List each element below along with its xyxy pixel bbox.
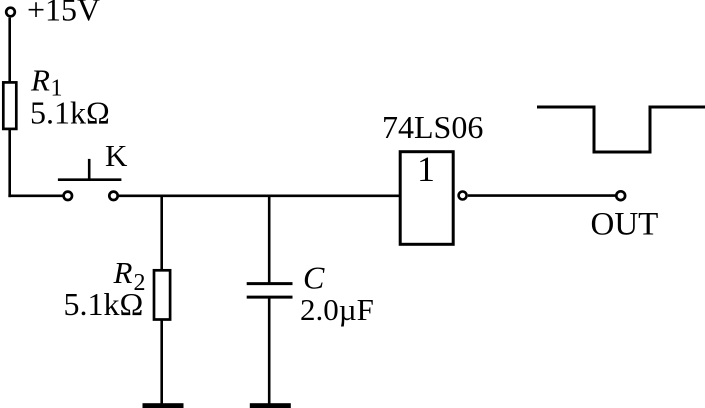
wire node to R2 top — [160, 196, 163, 271]
svg-text:2.0µF: 2.0µF — [300, 292, 374, 327]
switch K actuator stem — [88, 159, 91, 180]
svg-text:5.1kΩ: 5.1kΩ — [30, 95, 110, 131]
wire node to C top plate — [268, 196, 271, 284]
wire R2 bottom to ground — [160, 320, 163, 405]
wire switch right contact to gate input — [118, 195, 400, 198]
wire +15V terminal to R1 top — [8, 18, 11, 82]
wire corner to switch left contact — [8, 195, 63, 198]
svg-text:C: C — [303, 259, 325, 295]
switch K actuator bar — [58, 178, 122, 181]
switch K left contact — [64, 192, 72, 200]
capacitor C bottom plate — [247, 296, 293, 299]
resistor R2 — [154, 270, 170, 319]
svg-text:+15V: +15V — [27, 0, 100, 28]
node OUT terminal — [616, 191, 625, 200]
ground (C branch) — [250, 403, 291, 408]
ground (R2 branch) — [143, 403, 184, 408]
switch K right contact — [109, 192, 117, 200]
wire C bottom plate to ground — [268, 297, 271, 404]
svg-text:R: R — [30, 62, 50, 97]
wire R1 bottom to corner — [8, 129, 11, 197]
wire inverter output to OUT terminal — [468, 194, 616, 197]
svg-text:74LS06: 74LS06 — [382, 109, 483, 145]
svg-text:K: K — [105, 138, 128, 173]
svg-text:OUT: OUT — [591, 207, 659, 243]
capacitor C top plate — [247, 282, 293, 285]
svg-text:5.1kΩ: 5.1kΩ — [64, 286, 144, 322]
resistor R1 — [3, 82, 16, 128]
svg-text:1: 1 — [417, 149, 435, 189]
inverter U1 74LS06 body — [400, 152, 453, 245]
inverter output bubble — [459, 192, 467, 200]
node +15V supply terminal — [6, 8, 15, 17]
waveform output pulse sketch — [537, 107, 705, 152]
svg-text:R: R — [113, 255, 133, 290]
